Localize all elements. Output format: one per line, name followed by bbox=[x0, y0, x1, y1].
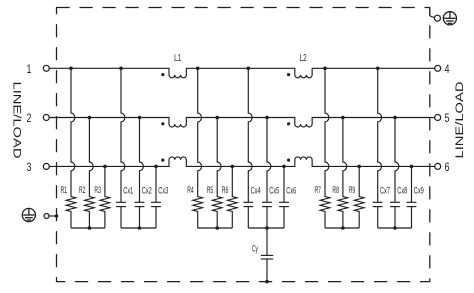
svg-text:R4: R4 bbox=[187, 185, 194, 196]
svg-text:R1: R1 bbox=[61, 185, 68, 196]
svg-text:R9: R9 bbox=[349, 185, 356, 196]
svg-text:Cx6: Cx6 bbox=[286, 186, 296, 197]
svg-text:Cx7: Cx7 bbox=[380, 186, 390, 197]
svg-text:LINE/LOAD: LINE/LOAD bbox=[454, 81, 466, 158]
svg-text:6: 6 bbox=[445, 160, 450, 174]
svg-text:Cy: Cy bbox=[252, 244, 258, 255]
svg-text:4: 4 bbox=[445, 62, 450, 76]
svg-text:L2: L2 bbox=[300, 53, 307, 64]
svg-text:Cx9: Cx9 bbox=[414, 186, 424, 197]
svg-text:2: 2 bbox=[27, 111, 32, 125]
svg-text:Cx3: Cx3 bbox=[158, 186, 168, 197]
svg-text:Cx8: Cx8 bbox=[397, 186, 407, 197]
svg-text:Cx5: Cx5 bbox=[269, 186, 279, 197]
svg-text:Cx2: Cx2 bbox=[142, 186, 152, 197]
svg-text:LINE/LOAD: LINE/LOAD bbox=[11, 82, 23, 159]
svg-text:Cx4: Cx4 bbox=[251, 186, 261, 197]
svg-text:5: 5 bbox=[445, 111, 450, 125]
svg-text:1: 1 bbox=[27, 62, 32, 76]
svg-text:R3: R3 bbox=[94, 185, 101, 196]
svg-text:L1: L1 bbox=[174, 53, 181, 64]
svg-text:R7: R7 bbox=[315, 185, 322, 196]
svg-text:3: 3 bbox=[27, 160, 32, 174]
svg-text:R8: R8 bbox=[332, 185, 339, 196]
svg-text:R6: R6 bbox=[222, 185, 229, 196]
svg-text:Cx1: Cx1 bbox=[123, 186, 133, 197]
svg-text:R5: R5 bbox=[207, 185, 214, 196]
svg-text:R2: R2 bbox=[79, 185, 86, 196]
